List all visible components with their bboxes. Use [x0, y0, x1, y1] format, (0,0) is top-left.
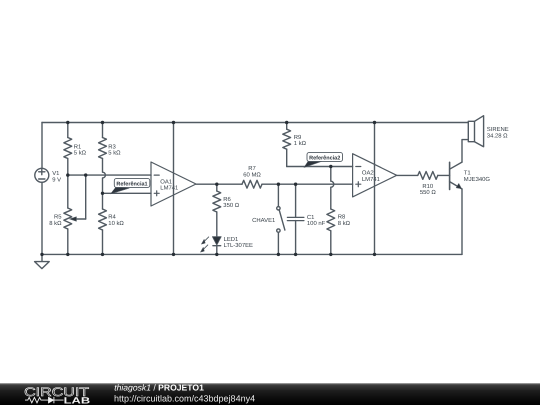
op-amp OA2 [353, 154, 397, 197]
resistor R10 [418, 172, 438, 180]
svg-text:V1: V1 [52, 170, 59, 177]
wire R5 wiper to minus line [85, 175, 87, 219]
op-amp OA1 [151, 162, 196, 206]
svg-text:8 kΩ: 8 kΩ [338, 220, 351, 227]
CircuitLab logo LAB [64, 395, 91, 405]
svg-text:C1: C1 [307, 214, 315, 221]
svg-text:R4: R4 [108, 214, 116, 221]
svg-text:350 Ω: 350 Ω [223, 202, 239, 209]
OA2 input polarity marks [356, 167, 361, 187]
resistor R7 [242, 180, 262, 188]
label Referência1 text [116, 180, 147, 187]
svg-text:5 kΩ: 5 kΩ [108, 150, 121, 157]
svg-text:LED1: LED1 [224, 236, 239, 243]
svg-text:LM741: LM741 [160, 185, 178, 192]
wire OA2 power rail vertical [374, 123, 376, 255]
wire OA1 non-inverting input [103, 192, 152, 194]
label R10 550 Ω [420, 183, 436, 196]
svg-text:LM741: LM741 [362, 176, 380, 183]
svg-text:1 kΩ: 1 kΩ [294, 140, 307, 147]
footer url [114, 393, 255, 403]
svg-text:8 kΩ: 8 kΩ [49, 220, 62, 227]
label LED1 LTL-307EE [224, 236, 253, 249]
svg-text:R6: R6 [223, 196, 231, 203]
resistor R4 [99, 209, 107, 254]
wire V1 bottom lead [41, 182, 43, 254]
svg-text:9 V: 9 V [52, 176, 61, 183]
label CHAVE1 [252, 217, 275, 224]
label R1 5 kΩ [74, 144, 87, 157]
svg-text:MJE340G: MJE340G [464, 176, 491, 183]
wire T1 emitter to ground rail [461, 189, 463, 254]
svg-text:Referência2: Referência2 [309, 154, 340, 161]
svg-text:R8: R8 [338, 214, 346, 221]
CircuitLab logo squiggle [25, 397, 64, 403]
svg-text:OA2: OA2 [362, 170, 374, 177]
svg-text:R10: R10 [422, 183, 434, 190]
LED LED1 [212, 237, 221, 255]
flag Referência2 [304, 152, 343, 167]
svg-text:R3: R3 [108, 144, 116, 151]
wire OA2 output [397, 174, 418, 176]
svg-text:34.28 Ω: 34.28 Ω [487, 133, 508, 140]
junction dots reference line [66, 173, 104, 195]
resistor R3 [99, 123, 107, 210]
label R6 350 Ω [223, 196, 239, 209]
CircuitLab logo CIRCUIT [24, 385, 90, 399]
footer project title [114, 383, 204, 393]
svg-text:Referência1: Referência1 [116, 180, 147, 187]
transistor T1 [450, 162, 462, 189]
svg-text:550 Ω: 550 Ω [420, 189, 436, 196]
svg-text:T1: T1 [464, 170, 471, 177]
label R5 8 kΩ [49, 214, 62, 227]
svg-text:http://circuitlab.com/c43bdpej: http://circuitlab.com/c43bdpej84ny4 [114, 393, 255, 403]
svg-text:SIRENE: SIRENE [487, 126, 509, 133]
label OA1 LM741 [160, 178, 178, 191]
label Referência2 text [309, 154, 340, 161]
label SIRENE 34.28 Ω [487, 126, 509, 140]
label OA2 LM741 [362, 170, 380, 183]
svg-text:R9: R9 [294, 134, 302, 141]
label R3 5 kΩ [108, 144, 121, 157]
svg-text:CHAVE1: CHAVE1 [252, 217, 275, 224]
wire OA2 non-inverting line [262, 183, 353, 185]
wire V1 top lead [41, 123, 43, 169]
label R4 10 kΩ [108, 214, 124, 227]
capacitor C1 [287, 184, 304, 254]
switch CHAVE1 [277, 184, 285, 254]
svg-text:60 MΩ: 60 MΩ [243, 171, 261, 178]
wire OA1 inverting input [68, 174, 151, 176]
speaker SIRENE [468, 116, 483, 147]
svg-text:R7: R7 [248, 165, 256, 172]
R5 wiper arrow [70, 217, 86, 221]
wire T1 base lead [438, 174, 450, 176]
svg-text:R1: R1 [74, 144, 82, 151]
label R7 60 MΩ [243, 165, 261, 178]
svg-text:LAB: LAB [64, 395, 91, 405]
OA1 input polarity marks [154, 175, 159, 196]
junction dots top rail [66, 121, 376, 124]
label V1 9 V [52, 170, 61, 183]
LED1 emission arrows [201, 237, 209, 252]
resistor R9 [283, 123, 291, 167]
resistor R8 branch with wire hop [327, 167, 335, 255]
svg-text:OA1: OA1 [160, 178, 172, 185]
label T1 MJE340G [464, 170, 491, 183]
label R9 1 kΩ [294, 134, 307, 147]
wire OA2 inverting line [287, 166, 353, 168]
junction dots bottom rail [40, 253, 376, 256]
wire OA1 power rail vertical [173, 123, 175, 255]
wire top +9V rail [42, 122, 468, 124]
svg-text:thiagosk1 / PROJETO1: thiagosk1 / PROJETO1 [114, 383, 204, 393]
voltage source V1 [35, 168, 49, 182]
label R8 8 kΩ [338, 214, 351, 227]
wire OA1 output [196, 183, 242, 185]
label C1 100 nF [307, 214, 326, 227]
ground [35, 254, 50, 268]
junction dots signal line [215, 165, 332, 186]
resistor R6 [213, 184, 221, 237]
flag Referência1 [111, 178, 150, 193]
svg-text:10 kΩ: 10 kΩ [108, 220, 124, 227]
potentiometer R5 [64, 175, 72, 254]
footer bar [0, 383, 540, 405]
svg-text:R5: R5 [54, 214, 62, 221]
resistor R1 [64, 123, 72, 176]
wire T1 collector to sirene [462, 140, 468, 163]
svg-text:100 nF: 100 nF [307, 220, 326, 227]
wire bottom ground rail [42, 253, 462, 255]
svg-text:LTL-307EE: LTL-307EE [224, 242, 253, 249]
svg-text:5 kΩ: 5 kΩ [74, 150, 87, 157]
